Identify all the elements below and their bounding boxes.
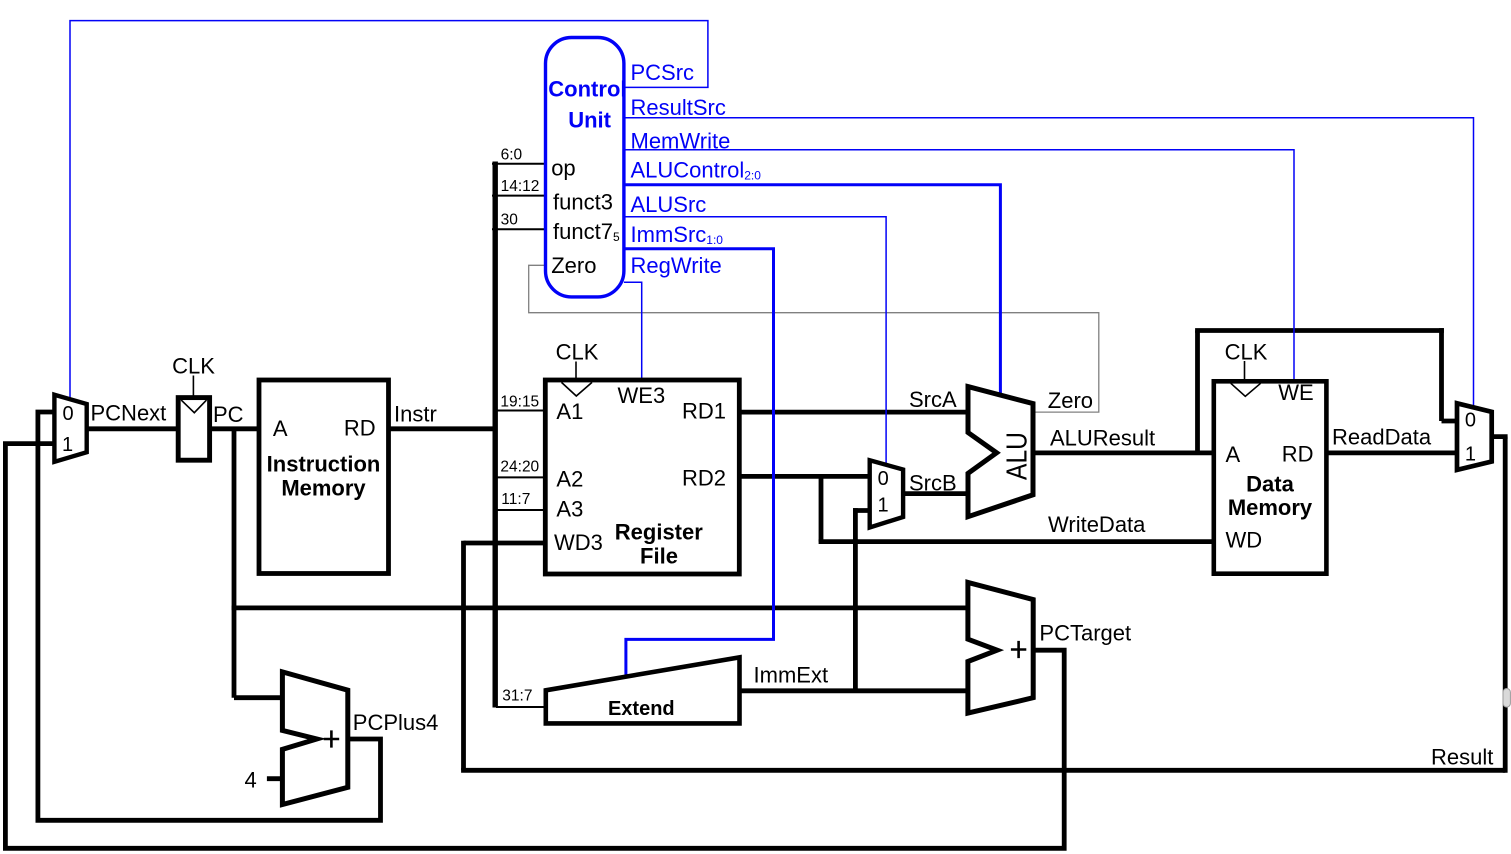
svg-text:30: 30 [501, 212, 519, 229]
svg-text:0: 0 [62, 403, 73, 425]
wire ALUResult bypass down to result mux [1439, 328, 1444, 421]
wire ALUResult riser at Data Memory [1195, 331, 1200, 453]
svg-text:Result: Result [1431, 745, 1493, 770]
svg-text:Instr: Instr [394, 401, 437, 426]
wire Result vertical right side [1503, 437, 1508, 773]
mux PCNext (0/1) [54, 395, 86, 462]
svg-text:1: 1 [877, 494, 888, 516]
wire CLK stem Register File [575, 362, 577, 379]
svg-text:ImmExt: ImmExt [754, 662, 829, 687]
svg-text:ALU: ALU [1002, 432, 1034, 480]
svg-text:A: A [273, 416, 288, 441]
wire ImmExt riser to SrcB mux [853, 508, 858, 691]
svg-text:4: 4 [245, 767, 257, 792]
svg-text:CLK: CLK [172, 354, 215, 379]
wire instr 19:15 tap to A1 [496, 410, 547, 412]
svg-text:RegWrite: RegWrite [631, 253, 722, 278]
svg-text:ALUControl2:0: ALUControl2:0 [631, 158, 762, 183]
wire WD3 from Result riser [464, 541, 549, 546]
svg-text:SrcA: SrcA [909, 387, 957, 412]
plus sign PCPlus4 adder [324, 730, 340, 747]
svg-text:Extend: Extend [608, 698, 675, 720]
wire Result riser to WD3 [461, 541, 466, 771]
memory Instruction Memory [259, 380, 389, 574]
svg-text:Zero: Zero [551, 253, 596, 278]
svg-text:ALUSrc: ALUSrc [631, 192, 707, 217]
svg-text:funct3: funct3 [553, 190, 613, 215]
plus sign PCTarget adder [1011, 641, 1026, 658]
svg-text:RD1: RD1 [682, 398, 726, 423]
alu ALU [968, 387, 1033, 517]
wire SrcB mux input 1 stub [853, 508, 872, 513]
adder PCTarget [968, 582, 1033, 713]
mux SrcB (0/1) [870, 460, 903, 527]
svg-text:Instruction: Instruction [267, 452, 381, 477]
svg-text:Memory: Memory [1228, 495, 1313, 520]
svg-text:PCPlus4: PCPlus4 [353, 710, 439, 735]
svg-text:Zero: Zero [1048, 388, 1093, 413]
svg-text:op: op [551, 156, 575, 181]
wire PC to PCPlus4 adder top input [234, 695, 285, 700]
wire SrcB (mux to ALU) [901, 491, 971, 496]
svg-text:PCSrc: PCSrc [631, 60, 695, 85]
wire instr 30 tap to funct7 [492, 228, 547, 230]
wire CLK stem Data Memory [1244, 361, 1246, 380]
wire Zero feedback (ALU to Control Unit) [529, 265, 1099, 412]
svg-text:WD: WD [1226, 528, 1263, 553]
wire ResultSrc (control to result mux select) [624, 118, 1474, 407]
svg-text:Data: Data [1246, 471, 1294, 496]
wire RD2 [737, 474, 871, 479]
wire constant 4 stub [267, 776, 285, 781]
svg-text:Register: Register [615, 519, 703, 544]
svg-text:WE3: WE3 [618, 383, 666, 408]
scrollbar artifact [1503, 689, 1510, 708]
wire PCSrc (control to PCNext mux select) [70, 21, 708, 398]
svg-text:A3: A3 [556, 497, 583, 522]
svg-text:WriteData: WriteData [1048, 512, 1146, 537]
wire ALUResult [1031, 450, 1216, 455]
wire RegWrite (control to Register File WE3) [624, 282, 642, 379]
svg-text:31:7: 31:7 [502, 687, 532, 704]
svg-text:A2: A2 [556, 467, 583, 492]
wire ALUSrc (control to SrcB mux select) [624, 217, 886, 465]
wire instr 6:0 tap to op [492, 163, 547, 165]
svg-text:ALUResult: ALUResult [1050, 425, 1155, 450]
wire result mux output stub [1489, 434, 1508, 439]
control unit Control Unit [546, 38, 624, 297]
wire ImmSrc bus (control to Extend) [624, 249, 774, 675]
svg-text:19:15: 19:15 [500, 394, 539, 411]
svg-text:0: 0 [878, 468, 889, 490]
svg-text:PCNext: PCNext [91, 401, 167, 426]
wire instr 24:20 tap to A2 [496, 476, 547, 478]
wire RD1 / SrcA [737, 410, 971, 415]
svg-text:File: File [640, 543, 678, 568]
svg-text:1: 1 [1465, 443, 1476, 465]
svg-text:1: 1 [62, 434, 73, 456]
svg-text:Control: Control [548, 77, 626, 102]
wire PCNext (mux to PC register) [84, 426, 182, 431]
wire PC (PC register to Instruction Memory A) [206, 426, 263, 431]
wire PCPlus4 loop back to PCNext mux input 0 [38, 412, 381, 820]
wire MemWrite (control to Data Memory WE) [624, 150, 1294, 381]
wire ImmExt [738, 688, 971, 693]
memory Data Memory [1214, 381, 1327, 573]
wire ALUResult bypass over Data Memory [1195, 328, 1444, 333]
svg-text:PC: PC [213, 402, 244, 427]
svg-text:ResultSrc: ResultSrc [631, 95, 726, 120]
svg-text:A: A [1226, 442, 1241, 467]
svg-text:WD3: WD3 [554, 530, 603, 555]
svg-text:Unit: Unit [568, 107, 611, 132]
wire result mux input 0 stub [1442, 419, 1460, 424]
svg-text:14:12: 14:12 [501, 178, 540, 195]
wire RD2 to WriteData vertical [819, 474, 824, 542]
clock wedge PC register [181, 400, 206, 413]
wire PCTarget loop back to PCNext mux input 1 [5, 444, 1064, 849]
clock wedge Data Memory [1231, 383, 1261, 396]
svg-text:RD: RD [344, 415, 376, 440]
clock wedge Register File [562, 382, 593, 396]
register file Register File [545, 380, 739, 574]
svg-text:24:20: 24:20 [500, 459, 539, 476]
svg-text:Memory: Memory [281, 476, 366, 501]
wire ALUControl bus (control to ALU) [624, 185, 1001, 394]
wire Instr vertical bus [493, 162, 498, 708]
svg-text:MemWrite: MemWrite [631, 128, 731, 153]
wire Result horizontal [461, 768, 1505, 773]
wire instr 31:7 tap to Extend [496, 706, 548, 708]
svg-text:funct75: funct75 [553, 219, 620, 244]
wire PC to PCTarget adder top input [232, 606, 970, 611]
register PC [178, 398, 209, 461]
svg-text:PCTarget: PCTarget [1039, 621, 1131, 646]
svg-text:0: 0 [1465, 409, 1476, 431]
svg-text:6:0: 6:0 [501, 147, 523, 164]
svg-text:11:7: 11:7 [501, 491, 530, 508]
wire Instr (Instruction Memory RD to instruction bus) [390, 426, 493, 431]
svg-text:WE: WE [1278, 380, 1313, 405]
wire WriteData [819, 539, 1216, 544]
wire CLK stem PC register [192, 376, 194, 396]
svg-text:RD: RD [1282, 442, 1314, 467]
svg-text:CLK: CLK [1225, 339, 1268, 364]
svg-text:SrcB: SrcB [909, 470, 957, 495]
wire ReadData [1324, 450, 1459, 455]
mux Result (0/1) [1457, 403, 1492, 470]
svg-text:CLK: CLK [556, 339, 599, 364]
wire instr 11:7 tap to A3 [496, 509, 547, 511]
adder PCPlus4 [282, 672, 347, 805]
svg-text:A1: A1 [556, 399, 583, 424]
svg-text:RD2: RD2 [682, 466, 726, 491]
extend unit Extend [546, 657, 740, 723]
svg-text:ReadData: ReadData [1332, 424, 1432, 449]
wire instr 14:12 tap to funct3 [492, 195, 547, 197]
wire PC branch down to adders [232, 429, 237, 698]
